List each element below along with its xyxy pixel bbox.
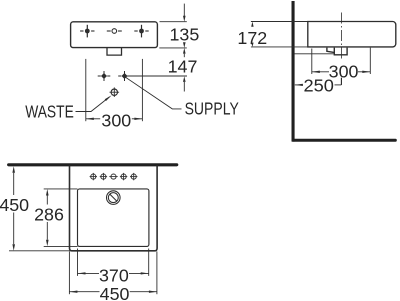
supply height extension line [125, 75, 188, 77]
svg-text:250: 250 [304, 76, 335, 96]
extension line 300 side left [311, 49, 313, 75]
mounting bracket line side view [295, 53, 335, 55]
svg-text:SUPPLY: SUPPLY [185, 99, 239, 119]
basin inner bowl plan view [78, 189, 149, 247]
dimension 172 [251, 22, 253, 47]
waste leader line [76, 95, 112, 111]
dimension 370 [78, 272, 149, 274]
extension line 286 top [44, 188, 78, 190]
dimension 300 front [86, 118, 143, 120]
svg-text:450: 450 [100, 284, 130, 301]
extension line 300 left [85, 59, 87, 121]
drain trap body side view [334, 48, 347, 55]
drain center line [341, 13, 343, 85]
drain trap step side view [327, 48, 334, 53]
extension line 450 width right [156, 252, 158, 295]
dimension 250 [295, 78, 342, 86]
extension line 450 width left [68, 252, 70, 295]
dimension 147 bottom arrow [183, 76, 186, 91]
floor section side view [292, 139, 397, 142]
supply leader line [126, 77, 182, 109]
svg-text:450: 450 [0, 195, 29, 215]
svg-text:WASTE: WASTE [25, 102, 74, 122]
basin side profile [308, 22, 396, 47]
faucet hole symbol 2 [100, 173, 107, 180]
extension line 300 right [141, 59, 143, 121]
svg-text:135: 135 [170, 24, 200, 44]
wall line plan view [9, 163, 177, 166]
extension line 370 right [148, 249, 150, 276]
svg-text:147: 147 [168, 56, 198, 76]
extension line 172 bottom [251, 46, 308, 48]
drain tab front view [107, 48, 122, 56]
extension line 370 left [77, 249, 79, 276]
dimension 135 [160, 4, 187, 22]
overflow circle symbol center [107, 29, 122, 34]
svg-text:370: 370 [99, 265, 129, 285]
shared extension line 135/147 [159, 42, 187, 57]
faucet hole symbol center [109, 174, 117, 179]
drain symbol plan view [107, 191, 121, 205]
dimension 286 [46, 189, 49, 246]
dimension 450 width [69, 291, 156, 293]
faucet hole symbol 1 [90, 173, 97, 180]
fixing target symbol left [80, 25, 94, 38]
basin outer rim plan view [70, 165, 158, 250]
basin front elevation outline [71, 22, 158, 48]
dimension 450 depth [12, 166, 15, 251]
svg-text:172: 172 [237, 28, 267, 48]
extension line 300 side right [369, 48, 371, 74]
svg-text:300: 300 [101, 111, 131, 131]
faucet hole symbol 5 [130, 173, 137, 180]
dimension 300 side [312, 71, 371, 73]
faucet hole symbol 4 [120, 173, 127, 180]
extension line 172 top [251, 21, 308, 23]
wall section side view [292, 1, 295, 142]
extension line 286 bottom [44, 245, 78, 247]
supply symbol right [118, 71, 131, 81]
waste symbol [110, 87, 120, 97]
extension line 450 depth bottom [9, 250, 70, 252]
supply symbol left [98, 71, 111, 81]
svg-text:286: 286 [34, 204, 64, 224]
fixing target symbol right [134, 25, 148, 38]
